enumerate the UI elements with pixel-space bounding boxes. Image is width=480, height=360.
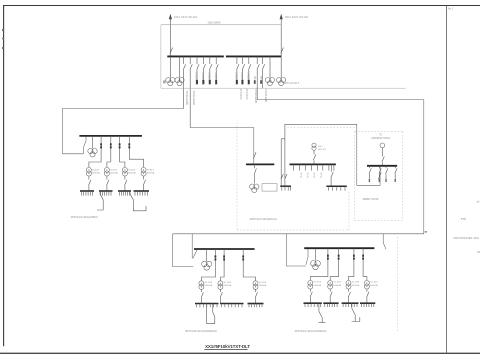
lower-left branch T3 wire [243, 249, 255, 281]
svg-text:3#TF10/0.4kV(2x630kVA): 3#TF10/0.4kV(2x630kVA) [185, 329, 217, 333]
svg-text:10kV 2#JX WL102: 10kV 2#JX WL102 [284, 15, 308, 19]
svg-text:SC B13: SC B13 [370, 282, 378, 284]
svg-text:SCB13: SCB13 [110, 169, 118, 171]
center stub busbar 2 [326, 185, 346, 187]
PT3 drop wire [269, 56, 271, 77]
center PT circles [250, 184, 255, 189]
svg-text:XX1#5F10kV1TXT-DLT: XX1#5F10kV1TXT-DLT [205, 344, 250, 349]
left transformer branch T1 wire [89, 136, 101, 167]
svg-text:SCB13: SCB13 [147, 169, 155, 171]
lower-left PT drop [206, 249, 208, 261]
svg-text:800kVA: 800kVA [110, 172, 118, 175]
lower-right T2 LV breaker [330, 289, 332, 303]
LV feeder combs segment 1 [82, 191, 93, 196]
svg-text:4#TF10/0.4kV(4x630kVA): 4#TF10/0.4kV(4x630kVA) [295, 329, 327, 333]
feeder R1 load arrow [236, 80, 238, 84]
lower-left LV busbar segment 2 [220, 303, 244, 305]
lower-right PT circles [311, 261, 317, 267]
svg-text:SC B13: SC B13 [259, 282, 267, 284]
feeder L4 drop wire [216, 56, 218, 79]
lower-left branch T1 CT marker [215, 255, 217, 257]
lower-right branch T3 CT marker [353, 255, 355, 257]
lower-right busbar [304, 247, 374, 249]
right feeder 2 [379, 166, 381, 179]
transformer winding marks [88, 169, 89, 170]
svg-text:SC B13: SC B13 [352, 282, 360, 284]
lower-right LV busbar segment 2 [323, 302, 338, 304]
svg-text:3#ZB7 MX-B: 3#ZB7 MX-B [362, 197, 378, 201]
center busbar [246, 163, 274, 165]
svg-text:a1: a1 [477, 200, 480, 204]
PT4 circles [277, 78, 282, 83]
svg-text:JYV-3x70: JYV-3x70 [245, 89, 248, 100]
lower-left branch T1 wire [201, 249, 215, 281]
title block divider line [446, 6, 448, 354]
left transformer branch T3 wire [120, 136, 125, 167]
left transformer branch T4 wire [129, 136, 143, 167]
section boundary dashed top (mid-right) [355, 130, 403, 132]
sheet margin tick 3 [2, 38, 4, 40]
lower-left branch T3 CT marker [242, 255, 244, 257]
lower-left LV busbar segment 3 [248, 303, 264, 305]
feeder L1 drop wire [197, 56, 199, 79]
LV feeder combs segment 3 [120, 191, 130, 196]
svg-text:BY(1): BY(1) [306, 173, 308, 179]
incomer 2 breaker slash [281, 48, 284, 54]
faint room line center [287, 127, 354, 129]
svg-text:MODBUS/T100kV: MODBUS/T100kV [372, 138, 391, 140]
lower-right combs segment 2 [325, 303, 337, 307]
incomer feeder 2 (right) wire [280, 19, 282, 57]
wire branch to lower-right bus right end [383, 234, 386, 249]
lower-right LV busbar segment 1 [304, 302, 322, 304]
lower-right T3 LV breaker [348, 289, 350, 303]
center stub busbar 1 [280, 185, 291, 187]
svg-text:No.1: No.1 [448, 6, 454, 10]
LV tie link right [130, 191, 146, 211]
LV feeder combs segment 4 [135, 191, 148, 196]
section boundary dashed bottom (mid-right) [355, 220, 403, 222]
lower-right combs segment 4 [362, 303, 374, 307]
left LV busbar segment 2 [99, 190, 113, 192]
feeder L3 load arrow [209, 80, 211, 84]
wire route B: inner loop to lower feeds [173, 234, 194, 267]
incomer 1 breaker slash [170, 48, 173, 54]
route B cable CT blob [260, 80, 262, 84]
svg-text:YJV22-3x185: YJV22-3x185 [254, 88, 258, 103]
right feeder 1 [369, 166, 371, 179]
svg-text:630kVA: 630kVA [333, 284, 341, 287]
left branch T2 CT marker [110, 143, 112, 145]
svg-text:JYV-3x70: JYV-3x70 [239, 89, 242, 100]
transformer T1 LV breaker [89, 176, 91, 191]
lower-right outgoing link 1 [319, 303, 326, 322]
route drop: feeder to center substation (slash) [190, 56, 192, 127]
left LV busbar segment 3 [118, 190, 131, 192]
svg-text:800kVA: 800kVA [128, 172, 136, 175]
lower-left PT circles [202, 261, 208, 267]
PT2 circles [175, 78, 180, 83]
svg-text:SCB13: SCB13 [92, 169, 100, 171]
center busbar segment II [290, 163, 336, 165]
svg-text:10kV: 10kV [318, 146, 324, 148]
feeder R3 drop wire [249, 56, 251, 79]
right feeder 4 [395, 166, 397, 179]
feeder R2 load arrow [242, 80, 244, 84]
svg-text:SC B13: SC B13 [224, 282, 232, 284]
PT1 tag [163, 80, 166, 83]
lower-right LV busbar segment 4 [360, 302, 375, 304]
svg-text:630kVA: 630kVA [314, 284, 322, 287]
transformer T4 LV breaker [143, 176, 145, 191]
feeder R3 load arrow [248, 80, 250, 84]
center stub 2 combs [328, 186, 345, 190]
left branch T3 CT marker [119, 143, 121, 145]
lower-right combs segment 1 [305, 303, 320, 307]
sheet margin tick 1 [2, 29, 4, 31]
section boundary dashed line 1 [236, 123, 238, 231]
svg-text:HWTZ10STE1-204: HWTZ10STE1-204 [453, 236, 479, 240]
right PT riser wire [382, 148, 384, 166]
left section PT circles [88, 148, 93, 153]
center busbar II combs [294, 164, 334, 170]
svg-text:SC B13: SC B13 [333, 282, 341, 284]
section boundary dashed line 4 [397, 237, 399, 333]
right feeder 3 load mark [385, 179, 386, 182]
lower-left transformer T3 [253, 281, 258, 286]
svg-text:BY(1): BY(1) [319, 173, 321, 179]
lower-left combs segment 3 [249, 304, 262, 308]
lower-right branch T4 CT marker [362, 255, 364, 257]
lower-left T3 LV breaker [255, 289, 257, 303]
left LV busbar segment 1 [80, 190, 94, 192]
route A cable CT blob [254, 80, 256, 84]
center bus PT circles [312, 146, 316, 150]
svg-text:800kVA: 800kVA [147, 172, 155, 175]
right PT circle [380, 143, 385, 148]
main busbar section II [226, 55, 282, 57]
lower-left combs segment 2 [222, 304, 243, 308]
lower-right branch T3 wire [349, 248, 354, 280]
svg-text:YJV22-3x95: YJV22-3x95 [264, 89, 268, 103]
incomer feeder 1 (left) wire [169, 19, 171, 57]
PT1 drop wire [169, 56, 171, 77]
lower-right branch T4 wire [363, 248, 367, 280]
svg-text:YJV22-3x120: YJV22-3x120 [192, 90, 196, 105]
feeder R1 drop wire [237, 56, 239, 79]
left LV busbar segment 4 [134, 190, 150, 192]
feeder L4 load arrow [215, 80, 217, 84]
left section PT drop [92, 136, 94, 149]
wire route 1: main bus to left substation [63, 109, 184, 154]
lower-right T1 LV breaker [310, 289, 312, 303]
PT1 circles [166, 78, 171, 83]
wire route to mid-right substation [285, 124, 381, 185]
sheet margin tick 2 [2, 47, 4, 49]
right feeder 3 [386, 166, 388, 179]
center stub feeder 1 wire [281, 124, 287, 186]
PT2 drop wire [179, 56, 181, 77]
svg-text:10/0.1kV: 10/0.1kV [318, 149, 327, 151]
svg-text:630kVA: 630kVA [370, 284, 378, 287]
lower-right LV busbar segment 3 [342, 302, 359, 304]
route drop: feeder to left substation (slash) [183, 56, 185, 108]
lower-right combs segment 3 [343, 303, 357, 307]
center feed riser breaker slash [253, 152, 256, 158]
svg-text:1#TF10/0.4kV(2x800): 1#TF10/0.4kV(2x800) [71, 215, 98, 219]
transformer T2 [104, 167, 109, 172]
svg-text:YJV22-3x185: YJV22-3x185 [185, 90, 189, 105]
left LV busbar 10kV side [79, 135, 141, 137]
svg-text:630kVA: 630kVA [259, 284, 267, 287]
PT4 drop wire [280, 56, 282, 77]
lower-left branch T2 CT marker [223, 255, 225, 257]
wire route A: outer loop to lower-left substation [173, 100, 424, 259]
center stub 1 combs [282, 186, 291, 190]
lower-left busbar [194, 248, 255, 250]
svg-text:10kV(I)MX: 10kV(I)MX [207, 20, 220, 24]
feeder L3 drop wire [210, 56, 212, 79]
lower-right branch T1 wire [310, 248, 328, 280]
route drop B: feeder to lower-right substation [262, 56, 264, 88]
center box dashed bottom [237, 229, 349, 231]
right feeder 1 load mark [369, 179, 370, 182]
transformer T1 [86, 167, 91, 172]
right busbar [367, 165, 397, 167]
wire route C: center stub to lower-right substation [287, 234, 309, 266]
svg-text:5T8: 5T8 [461, 217, 467, 221]
LV tie link left [97, 191, 103, 210]
section boundary dashed line 3 [402, 131, 404, 220]
lower-right branch T2 CT marker [338, 255, 340, 257]
svg-text:2BH-12/J40.5: 2BH-12/J40.5 [284, 82, 300, 85]
feeder L2 drop wire [203, 56, 205, 79]
transformer T4 [141, 167, 146, 172]
sheet left border [3, 6, 5, 347]
svg-text:630kVA: 630kVA [205, 284, 213, 287]
lower-left combs segment 1 [197, 304, 218, 308]
feeder L2 load arrow [202, 80, 204, 84]
svg-text:630kVA: 630kVA [224, 284, 232, 287]
center metering box [262, 184, 277, 191]
feeder row underline [161, 87, 406, 89]
svg-text:SCB13: SCB13 [128, 169, 136, 171]
center stub feeder 2 wire [331, 164, 333, 186]
incomer 2 arrow [280, 14, 283, 19]
lower-left branch T2 wire [220, 249, 224, 281]
lower-right PT drop [315, 248, 317, 260]
section boundary dashed line 2 [354, 131, 356, 220]
svg-text:BY(1): BY(1) [299, 173, 301, 179]
center PT branch wire [254, 164, 256, 183]
svg-text:BY(1): BY(1) [313, 173, 315, 179]
svg-text:630kVA: 630kVA [352, 284, 360, 287]
left branch T1 CT marker [100, 143, 102, 145]
svg-text:SC B13: SC B13 [205, 282, 213, 284]
lower-left transformer T2 [218, 281, 223, 286]
svg-text:800kVA: 800kVA [92, 172, 100, 175]
LV feeder combs segment 2 [101, 191, 112, 196]
transformer T2 LV breaker [107, 176, 109, 191]
center box dashed right [348, 192, 350, 230]
lower-right branch T1 CT marker [327, 255, 329, 257]
wire route 2: main bus to center substation [190, 128, 254, 164]
lower-right outgoing link 2 [352, 303, 360, 321]
lower-right transformer T3 [346, 280, 351, 285]
lower-left LV busbar segment 1 [195, 303, 219, 305]
margin tick mid [425, 231, 427, 233]
PT3 circles [265, 78, 270, 83]
svg-text:SC B13: SC B13 [314, 282, 322, 284]
drawing title underline [204, 348, 247, 350]
feeder R2 drop wire [242, 56, 244, 79]
transformer T3 [122, 167, 127, 172]
right feeder 2 load mark [379, 179, 380, 182]
sheet top border [3, 5, 480, 7]
lower-left transformer T1 [199, 281, 204, 286]
lower-right transformer T2 [328, 280, 333, 285]
bus bracket line [161, 25, 282, 28]
feeder L1 load arrow [196, 80, 198, 84]
lower-right T4 LV breaker [367, 289, 369, 303]
lower-left outgoing link [207, 304, 215, 324]
svg-text:10kV 1#JX WL101: 10kV 1#JX WL101 [174, 15, 198, 19]
lower-right transformer T1 [308, 280, 313, 285]
route drop A: feeder to lower-left substation [257, 56, 259, 99]
main busbar section I [167, 55, 224, 57]
svg-text:2#TF10/0.4kV(EDUA): 2#TF10/0.4kV(EDUA) [250, 217, 277, 221]
switchgear room left line [160, 25, 162, 88]
lower-right transformer T4 [364, 280, 369, 285]
lower-left T2 LV breaker [220, 289, 222, 303]
incomer 1 arrow [169, 14, 172, 19]
center bus PT riser wire [313, 150, 316, 164]
transformer T3 LV breaker [125, 176, 127, 191]
sheet bottom border [0, 352, 480, 354]
left branch T4 CT marker [128, 143, 130, 145]
lower-right branch T2 wire [330, 248, 338, 280]
left transformer branch T2 wire [107, 136, 111, 167]
lower-left T1 LV breaker [201, 289, 203, 303]
